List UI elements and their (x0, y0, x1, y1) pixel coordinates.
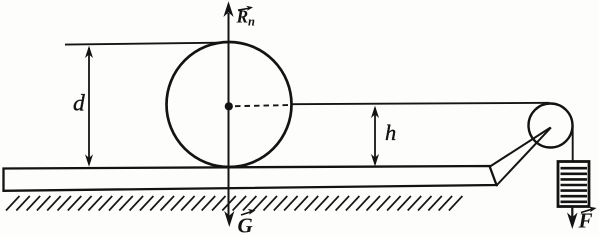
dimension arrow d (double headed) (85, 46, 93, 167)
ground hatching (6, 196, 462, 211)
svg-text:G: G (238, 214, 253, 237)
arrowhead Rn up (223, 1, 233, 17)
cylinder (big circle) (167, 42, 292, 167)
pulley (529, 104, 573, 148)
dimension arrow h (double headed) (371, 106, 379, 167)
svg-text:d: d (73, 91, 85, 117)
rope: vertical from pulley to block (572, 126, 574, 163)
wire: top tangent reference line (65, 43, 229, 45)
axis line with Rn and G arrows (228, 13, 230, 216)
rope: horizontal from cylinder to pulley (293, 103, 550, 104)
hatched block (weight) (558, 162, 589, 207)
dashed radius line (235, 105, 292, 106)
slab (table) (4, 166, 497, 191)
label Rn with vector hat (236, 6, 256, 29)
center dot (225, 102, 233, 110)
svg-text:h: h (385, 120, 396, 145)
svg-text:n: n (248, 15, 255, 29)
label G with vector hat (238, 209, 256, 238)
force arrow F down (571, 207, 573, 217)
label F with vector hat (578, 207, 597, 233)
arrowhead G down (224, 211, 234, 227)
bracket lines from slab corner to pulley center (490, 128, 551, 167)
